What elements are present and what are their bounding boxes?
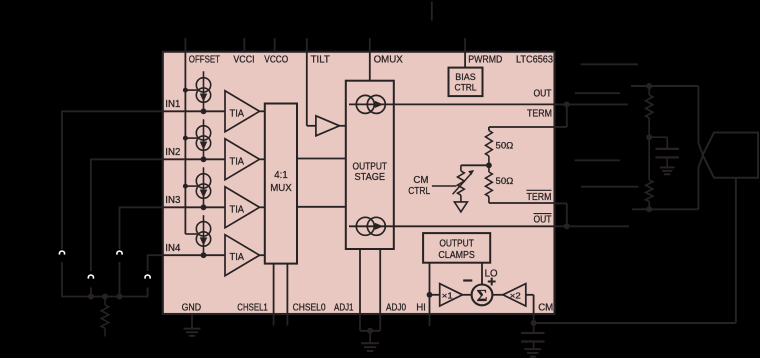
variable source CM CTRL bbox=[453, 170, 475, 202]
svg-text:MUX: MUX bbox=[270, 183, 292, 194]
svg-text:LTC6563: LTC6563 bbox=[516, 54, 553, 65]
label minus bbox=[463, 279, 472, 281]
junction HI node bbox=[427, 292, 433, 298]
svg-text:IN1: IN1 bbox=[165, 99, 180, 110]
pin CM ext bbox=[533, 314, 535, 323]
svg-text:OMUX: OMUX bbox=[374, 54, 404, 65]
label 4:1 bbox=[274, 170, 287, 181]
photodiode D4 light mark bbox=[145, 275, 150, 279]
label CHSEL0 bbox=[293, 303, 327, 314]
resistor R ext top bbox=[646, 86, 653, 137]
label STAGE bbox=[355, 172, 386, 183]
wire clamp LO bbox=[481, 263, 483, 285]
wire IN1 pin bbox=[163, 110, 225, 112]
label x2 bbox=[510, 290, 521, 300]
svg-text:BIAS: BIAS bbox=[455, 71, 476, 82]
svg-text:IN3: IN3 bbox=[165, 195, 180, 206]
svg-text:OFFSET: OFFSET bbox=[189, 54, 220, 65]
buffer TILT bbox=[316, 116, 346, 136]
wire TILT bbox=[307, 52, 316, 126]
label LTC6563 bbox=[516, 54, 553, 65]
svg-text:CLAMPS: CLAMPS bbox=[438, 250, 475, 261]
wire OMUX bbox=[369, 52, 371, 81]
wire x2 to CM bbox=[526, 295, 534, 314]
svg-text:4:1: 4:1 bbox=[274, 170, 287, 181]
wire common bus bbox=[61, 296, 148, 298]
amplifier x2 bbox=[492, 284, 525, 306]
label OFFSET bbox=[189, 54, 220, 65]
label ADJ0 bbox=[386, 303, 407, 314]
wire OFFSET branch 2 bbox=[185, 137, 197, 139]
svg-text:TIA: TIA bbox=[230, 252, 245, 263]
label TILT bbox=[311, 54, 330, 65]
wire seg B (cropped) bbox=[575, 92, 620, 94]
photodiode D2 wire upper bbox=[90, 159, 92, 272]
label CM pin bbox=[538, 303, 553, 314]
svg-text:STAGE: STAGE bbox=[355, 172, 386, 183]
junction bus-D2 bbox=[88, 294, 94, 300]
ground ADJ bbox=[361, 343, 379, 351]
svg-text:CHSEL0: CHSEL0 bbox=[293, 303, 327, 314]
svg-text:TILT: TILT bbox=[311, 54, 330, 65]
pin VCCI stub bbox=[243, 38, 245, 53]
bias ctrl box bbox=[449, 68, 483, 97]
label TIA2 bbox=[230, 156, 245, 167]
photodiode D4 wire upper bbox=[147, 254, 149, 271]
junction OUTB ext bbox=[564, 223, 570, 229]
TIA amplifier A2 bbox=[225, 139, 265, 180]
wire TERM ext bbox=[555, 104, 567, 127]
wire bottom net bbox=[632, 208, 698, 210]
svg-text:TIA: TIA bbox=[230, 156, 245, 167]
photodiode D3 light mark bbox=[117, 251, 122, 255]
svg-text:TERM: TERM bbox=[527, 192, 552, 203]
label CHSEL1 bbox=[237, 303, 267, 314]
junction OFFSET-2 bbox=[183, 136, 188, 141]
label IN3 bbox=[165, 195, 180, 206]
wire CM ctrl branch bbox=[461, 165, 489, 171]
wire seg A (cropped) bbox=[581, 63, 638, 65]
wire PWRMD bbox=[464, 52, 466, 68]
junction ADJ bbox=[367, 328, 373, 334]
svg-text:Σ: Σ bbox=[477, 286, 488, 305]
ground ADJ stub bbox=[369, 331, 371, 344]
wire TERMB ext bbox=[555, 203, 567, 226]
wire IN1 lead bbox=[62, 110, 163, 112]
wire OUT net bbox=[349, 103, 555, 105]
label CM bbox=[413, 175, 428, 186]
pin OMUX stub bbox=[369, 38, 371, 52]
label VCCO bbox=[264, 54, 288, 65]
svg-text:50Ω: 50Ω bbox=[496, 176, 514, 187]
wire clamp HI bbox=[429, 263, 431, 295]
wire IN4 lead bbox=[148, 254, 163, 256]
label GND bbox=[182, 303, 202, 314]
label HI bbox=[416, 302, 426, 313]
current source I1 bbox=[196, 71, 210, 111]
wire cap branch bbox=[649, 137, 667, 148]
label x1 bbox=[442, 290, 453, 300]
svg-text:50Ω: 50Ω bbox=[496, 141, 514, 152]
svg-text:CTRL: CTRL bbox=[455, 82, 477, 93]
current mirror bottom bbox=[356, 217, 385, 235]
wire IN3 pin bbox=[163, 206, 225, 208]
label MUX bbox=[270, 183, 292, 194]
label CLAMPS bbox=[438, 250, 475, 261]
label IN2 bbox=[165, 147, 180, 158]
arrow to vee (open) bbox=[454, 202, 467, 212]
pin CHSEL1 line bbox=[273, 264, 275, 326]
junction R mid bbox=[646, 134, 652, 140]
label TERMB bbox=[527, 190, 552, 203]
wire adc vcm pin bbox=[735, 178, 737, 323]
label CTRL bias bbox=[455, 82, 477, 93]
wire OFFSET branch 1 bbox=[185, 89, 197, 91]
svg-text:TIA: TIA bbox=[230, 108, 245, 119]
current source I4 bbox=[196, 215, 210, 255]
pin OFFSET stub bbox=[184, 38, 186, 52]
junction OFFSET-3 bbox=[183, 184, 188, 189]
junction Rtop bbox=[646, 83, 652, 89]
wire seg D (cropped) bbox=[581, 186, 638, 188]
wire IN4 pin bbox=[163, 254, 225, 256]
pin ADJ0 line bbox=[379, 249, 381, 331]
resistor R ext bottom bbox=[646, 137, 653, 209]
TIA amplifier A3 bbox=[225, 187, 265, 228]
adc symbol bbox=[703, 133, 758, 178]
photodiode D2 wire lower bbox=[90, 288, 92, 297]
capacitor CM bottom bbox=[521, 342, 544, 350]
label ADJ1 bbox=[334, 303, 354, 314]
wire OFFSET branch 4 bbox=[185, 233, 197, 235]
TIA amplifier A1 bbox=[225, 91, 265, 132]
node IN4 junction bbox=[201, 252, 207, 258]
pin CHSEL0 line bbox=[286, 264, 288, 326]
svg-text:OUT: OUT bbox=[534, 215, 552, 226]
svg-text:×1: ×1 bbox=[442, 290, 453, 300]
wire seg C (cropped) bbox=[575, 159, 620, 161]
wire CM ext bbox=[534, 322, 736, 324]
wire CM CTRL lead bbox=[432, 185, 457, 187]
svg-text:PWRMD: PWRMD bbox=[468, 54, 502, 65]
current mirror top bbox=[356, 95, 385, 113]
svg-text:CM: CM bbox=[413, 175, 428, 186]
label TERM bbox=[527, 108, 552, 119]
svg-text:TIA: TIA bbox=[230, 204, 245, 215]
wire adc bottom lead bbox=[698, 155, 703, 209]
svg-text:IN2: IN2 bbox=[165, 147, 180, 158]
svg-text:OUTPUT: OUTPUT bbox=[353, 162, 388, 173]
ground ext cap bbox=[660, 167, 675, 174]
svg-text:HI: HI bbox=[416, 302, 426, 313]
photodiode D3 wire upper bbox=[119, 207, 121, 250]
svg-text:VCCO: VCCO bbox=[264, 54, 288, 65]
svg-text:CM: CM bbox=[538, 303, 553, 314]
photodiode D1 light mark bbox=[59, 251, 64, 255]
junction bus-resistor bbox=[102, 294, 108, 300]
svg-text:VCCI: VCCI bbox=[233, 54, 254, 65]
pin VCCO stub bbox=[274, 38, 276, 53]
TIA amplifier A4 bbox=[225, 235, 265, 276]
label OUT bbox=[534, 89, 552, 100]
label VCCI bbox=[233, 54, 254, 65]
label TIA4 bbox=[230, 252, 245, 263]
label OUTB bbox=[534, 214, 552, 226]
svg-text:CHSEL1: CHSEL1 bbox=[237, 303, 267, 314]
svg-text:OUTPUT: OUTPUT bbox=[439, 238, 474, 249]
label OMUX bbox=[374, 54, 404, 65]
pin PWRMD stub bbox=[464, 38, 466, 52]
wire IN2 lead bbox=[91, 158, 163, 160]
junction OUT ext bbox=[564, 101, 570, 107]
label CTRL cm bbox=[408, 186, 431, 197]
output stage box bbox=[346, 81, 394, 249]
label IN4 bbox=[165, 243, 181, 254]
pin ADJ1 line bbox=[359, 249, 361, 331]
photodiode D2 light mark bbox=[88, 275, 93, 279]
IC body LTC6563 bbox=[163, 52, 555, 314]
wire IN3 lead bbox=[120, 206, 163, 208]
node IN2 junction bbox=[201, 156, 207, 162]
svg-text:TERM: TERM bbox=[527, 108, 552, 119]
wire OUT ext bbox=[555, 103, 628, 105]
photodiode D1 wire upper bbox=[61, 111, 63, 250]
label OUTPUT bbox=[353, 162, 388, 173]
label BIAS bbox=[455, 71, 476, 82]
mux 4:1 bbox=[265, 104, 297, 264]
ground CM bbox=[524, 349, 541, 357]
amplifier x1 bbox=[430, 284, 463, 306]
label TIA1 bbox=[230, 108, 245, 119]
wire supply (cropped, top) bbox=[431, 2, 433, 21]
label LO bbox=[485, 268, 498, 279]
wire ADJ tie bbox=[360, 330, 380, 332]
wire adc top lead bbox=[698, 86, 703, 155]
wire IN2 pin bbox=[163, 158, 225, 160]
current source I2 bbox=[196, 119, 210, 159]
label PWRMD bbox=[468, 54, 502, 65]
wire OUTB ext bbox=[555, 225, 630, 227]
wire MUX out B bbox=[297, 206, 346, 208]
label 50ohm 2 bbox=[496, 176, 514, 187]
svg-text:ADJ0: ADJ0 bbox=[386, 303, 407, 314]
wire OFFSET branch 3 bbox=[185, 185, 197, 187]
resistor bias (left) bbox=[101, 297, 109, 337]
svg-text:×2: ×2 bbox=[510, 290, 521, 300]
junction bus-D3 bbox=[117, 294, 123, 300]
pin GND stub bbox=[191, 314, 193, 329]
output clamps box bbox=[423, 233, 490, 263]
label IN1 bbox=[165, 99, 180, 110]
junction CM bbox=[531, 320, 537, 326]
wire OFFSET rail bbox=[184, 52, 186, 234]
pin HI line bbox=[429, 295, 431, 326]
capacitor ext bottom plate bbox=[655, 157, 679, 167]
label sigma bbox=[477, 286, 488, 305]
label plus bbox=[488, 278, 496, 286]
node IN3 junction bbox=[201, 204, 207, 210]
current source I3 bbox=[196, 167, 210, 207]
resistor R-term-1 50ohm bbox=[486, 131, 493, 166]
photodiode D1 wire lower bbox=[61, 262, 63, 297]
photodiode D3 wire lower bbox=[119, 262, 121, 297]
svg-text:GND: GND bbox=[182, 303, 202, 314]
capacitor CM top bbox=[521, 323, 544, 333]
wire TERM bbox=[489, 127, 555, 131]
svg-text:ADJ1: ADJ1 bbox=[334, 303, 354, 314]
svg-text:OUT: OUT bbox=[534, 89, 552, 100]
capacitor ext top plate bbox=[655, 148, 679, 150]
ground GND bbox=[184, 329, 201, 336]
junction OFFSET-1 bbox=[183, 88, 188, 93]
wire TERMB bbox=[489, 202, 555, 204]
pin TILT stub bbox=[306, 38, 308, 52]
junction term mid bbox=[486, 162, 492, 168]
wire OUTB net bbox=[349, 225, 555, 227]
svg-text:IN4: IN4 bbox=[165, 243, 181, 254]
svg-text:CTRL: CTRL bbox=[408, 186, 431, 197]
label OUTPUT clamps bbox=[439, 238, 474, 249]
label TIA3 bbox=[230, 204, 245, 215]
wire MUX out A bbox=[297, 158, 346, 160]
wire top net bbox=[631, 85, 698, 87]
resistor R-term-2 50ohm bbox=[486, 165, 493, 203]
photodiode D4 wire lower bbox=[147, 288, 149, 297]
summer sigma bbox=[463, 285, 493, 306]
label 50ohm 1 bbox=[496, 141, 514, 152]
junction Rbot bbox=[646, 206, 652, 212]
node IN1 junction bbox=[201, 108, 207, 114]
